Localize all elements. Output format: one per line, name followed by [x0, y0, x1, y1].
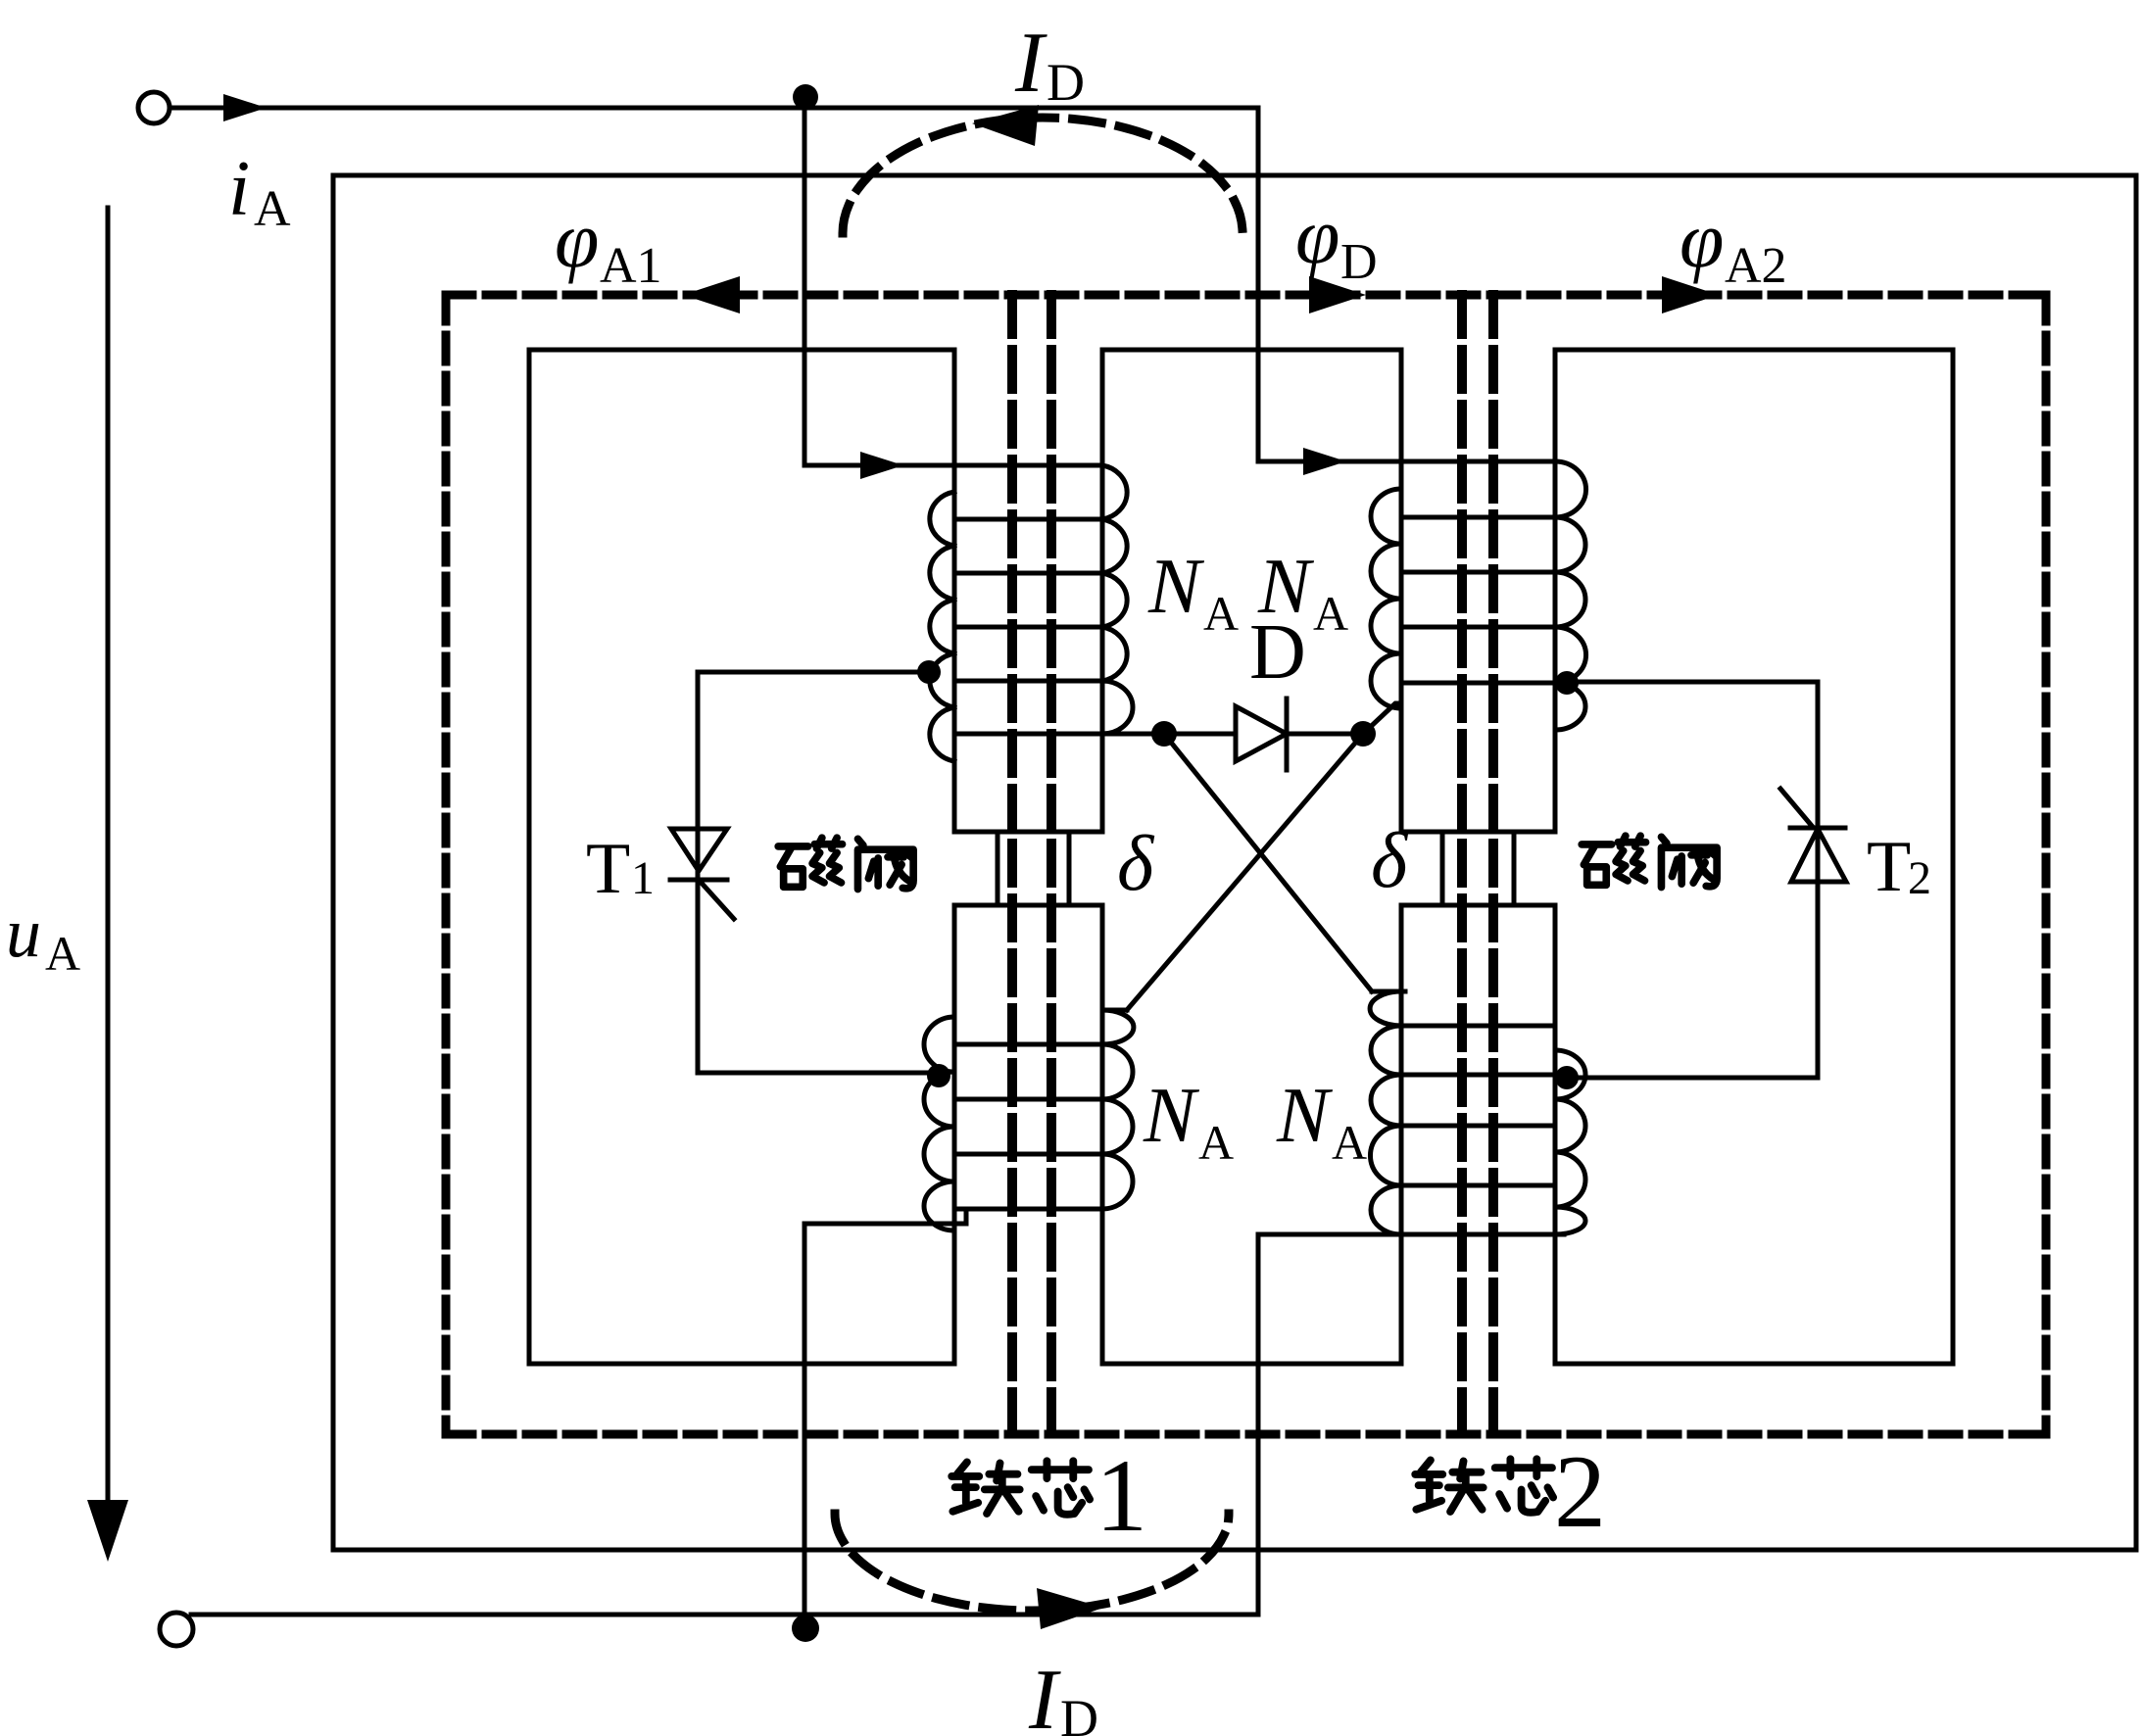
- svg-text:N: N: [1276, 1073, 1334, 1159]
- diode D body (triangle): [1236, 706, 1287, 761]
- middle yoke bottom (between cores): [1102, 1362, 1401, 1367]
- core 1 valve cap lower: [954, 903, 1102, 908]
- tap dot T1 bottom: [927, 1064, 950, 1087]
- core 1 outline: top yoke: [529, 348, 954, 353]
- label 磁 (of left 磁阀): [778, 838, 842, 887]
- svg-text:u: u: [6, 893, 41, 972]
- svg-text:I: I: [1014, 16, 1047, 111]
- winding N_A core2 upper: turn lines: [1401, 517, 1555, 683]
- svg-text:A: A: [1332, 1115, 1367, 1170]
- wire: left return drop to bottom bus: [803, 1224, 807, 1616]
- winding N_A core1 lower: entry tick from crossing wire: [1105, 1008, 1127, 1013]
- arrow phi_A1 (leftward on dashed loop): [683, 276, 740, 313]
- node A dot (diode anode): [1151, 721, 1177, 747]
- tap dot T1 top: [917, 660, 941, 684]
- outer wire loop box (i_A circuit frame): [333, 175, 2136, 1550]
- winding N_A core1 lower: left bumps: [924, 1017, 954, 1230]
- wire: T2 vertical lead upper: [1816, 682, 1821, 828]
- wire: top feed from terminal to right corner: [170, 106, 1258, 111]
- winding N_A core2 upper: left bumps: [1371, 489, 1401, 708]
- svg-text:N: N: [1143, 1073, 1200, 1159]
- wire: i_A2 entry into core 2 upper winding: [1258, 459, 1555, 464]
- svg-text:D: D: [1047, 53, 1085, 112]
- wire: core2 lower winding exit to return drop: [1258, 1232, 1564, 1237]
- bottom terminal (output): [160, 1613, 193, 1646]
- thyristor T1 gate lead: [699, 880, 734, 919]
- core 1 valve cap upper: [954, 830, 1102, 835]
- core 2 magnetic valve neck right: [1512, 832, 1517, 905]
- core 2 limb right edge lower: [1553, 905, 1558, 1364]
- tap dot T2 bottom: [1555, 1066, 1579, 1089]
- svg-text:I: I: [1028, 1653, 1061, 1736]
- winding N_A core2 lower: entry tick from crossing wire: [1372, 989, 1405, 994]
- I_D circulating current arc (top): [843, 118, 1242, 233]
- label 铁 (of 铁芯1): [951, 1462, 1019, 1514]
- core 2 valve cap upper: [1401, 830, 1555, 835]
- svg-text:δ: δ: [1371, 818, 1409, 904]
- svg-text:A: A: [1313, 586, 1348, 641]
- arrow phi_D (rightward on dashed loop): [1309, 276, 1366, 313]
- winding N_A core2 lower: right bumps: [1555, 1050, 1585, 1234]
- thyristor T1 cathode bar: [670, 878, 727, 883]
- junction dot top bus: [793, 84, 818, 110]
- svg-text:A1: A1: [600, 238, 662, 294]
- winding N_A core1 upper: bottom turn to diode node: [954, 732, 1236, 737]
- core 2 outline: right leg: [1951, 350, 1956, 1364]
- flux dashed rectangle: bottom edge: [446, 1430, 2046, 1439]
- winding N_A core2 lower: turn lines: [1401, 1026, 1555, 1185]
- flux line phi_D down through core 1 limb: [1047, 295, 1056, 1434]
- wire: T2 branch top from core2 winding tap: [1565, 680, 1818, 685]
- wire: i_A1 entry into core 1 upper winding: [804, 463, 1102, 468]
- winding N_A core1 upper: turn lines: [954, 519, 1102, 681]
- core 1 limb left edge upper: [952, 350, 957, 832]
- label 阀 (of right 磁阀): [1661, 837, 1717, 887]
- core 1 limb right edge upper: [1100, 350, 1105, 832]
- wire: diode cathode to node B: [1287, 732, 1363, 737]
- winding N_A core1 upper: left bumps: [930, 492, 954, 761]
- top terminal (input): [138, 92, 170, 123]
- diode D cathode bar: [1285, 699, 1290, 770]
- svg-text:A: A: [45, 926, 80, 981]
- thyristor T2 gate lead: [1780, 789, 1812, 826]
- winding N_A core1 lower: turn lines: [954, 1044, 1102, 1209]
- label 芯 (of 铁芯1): [1032, 1461, 1090, 1515]
- winding N_A core2 upper: right bumps: [1555, 461, 1586, 730]
- wire: crossing A (node A to core2 lower winding): [1164, 734, 1372, 991]
- core 2 limb left edge upper: [1399, 350, 1404, 832]
- flux dashed rectangle: left edge (phi_A1): [442, 295, 451, 1434]
- svg-text:A: A: [1198, 1115, 1234, 1170]
- core 1 magnetic valve neck right: [1067, 832, 1072, 905]
- arrow i_A on top feed: [223, 94, 267, 121]
- core 2 outline: top yoke: [1555, 348, 1953, 353]
- wire: bottom bus: [191, 1613, 1258, 1617]
- svg-text:A2: A2: [1725, 238, 1787, 294]
- wire: crossing B (node B to core1 lower winding): [1127, 734, 1363, 1010]
- winding N_A core2 lower: left bumps: [1370, 991, 1401, 1234]
- svg-text:φ: φ: [1295, 191, 1339, 280]
- label 阀 (of left 磁阀): [857, 839, 913, 889]
- winding N_A core1 upper: right bumps: [1102, 465, 1133, 734]
- arrow i_A2: [1303, 448, 1346, 475]
- core 2 valve cap lower: [1401, 903, 1555, 908]
- label 铁 (of 铁芯2): [1415, 1460, 1483, 1512]
- svg-text:i: i: [228, 146, 250, 232]
- wire: T2 vertical lead lower: [1816, 828, 1821, 1078]
- svg-text:φ: φ: [1680, 195, 1724, 284]
- flux dashed rectangle: right edge (phi_A2): [2042, 295, 2051, 1434]
- svg-text:D: D: [1340, 234, 1378, 290]
- svg-text:1: 1: [1096, 1438, 1147, 1553]
- u_A voltage reference line: [106, 208, 111, 1500]
- core 2 limb right edge upper: [1553, 350, 1558, 832]
- tap dot T2 top: [1555, 671, 1579, 695]
- label 磁 (of right 磁阀): [1582, 836, 1645, 885]
- svg-text:D: D: [1060, 1689, 1098, 1736]
- DOTS-ARROWS: [87, 84, 1719, 1642]
- svg-text:1: 1: [631, 852, 655, 904]
- flux loop phi_A1/phi_A2 outer dashed rectangle: top edge: [446, 291, 2046, 300]
- arrow i_A1: [860, 452, 903, 479]
- svg-text:A: A: [254, 181, 291, 237]
- core 1 limb left edge lower: [952, 905, 957, 1364]
- wire: T1 anode branch (top): [698, 670, 929, 675]
- flux line phi_D up through core 2 limb: [1457, 295, 1467, 1434]
- thyristor T1 body (triangle down): [671, 829, 727, 871]
- wire: core1 lower winding exit stub: [804, 1209, 966, 1224]
- core 2 magnetic valve neck left: [1440, 832, 1445, 905]
- flux line phi_A2 through core 2 limb: [1488, 295, 1498, 1434]
- svg-text:δ: δ: [1117, 821, 1155, 907]
- core 1 outline: left leg: [527, 350, 532, 1364]
- svg-text:T: T: [586, 829, 630, 909]
- wire: T2 branch bottom to core2 lower winding tap: [1565, 1076, 1818, 1081]
- wire: node B up to core2 upper winding: [1363, 703, 1401, 734]
- wire: T1 vertical anode lead: [696, 672, 701, 880]
- svg-text:T: T: [1867, 827, 1911, 907]
- svg-text:N: N: [1147, 544, 1205, 630]
- thyristor T2 cathode bar: [1790, 826, 1845, 831]
- junction dot bottom bus: [792, 1615, 819, 1642]
- arrow u_A (downward): [87, 1500, 128, 1562]
- winding N_A core1 lower: right bumps: [1102, 1010, 1134, 1209]
- wire: right return drop to bottom bus: [1256, 1234, 1261, 1615]
- core 1 outline: bottom yoke: [529, 1362, 954, 1367]
- I_D circulating current arc (bottom): [835, 1514, 1229, 1611]
- core 1 magnetic valve neck left: [996, 832, 1000, 905]
- wire: left drop from junction to winding N_A core1 entry: [803, 100, 807, 465]
- core 2 outline: bottom yoke: [1555, 1362, 1953, 1367]
- wire: right drop from top corner: [1256, 108, 1261, 461]
- core 2 limb left edge lower: [1399, 905, 1404, 1364]
- middle yoke top (between cores): [1102, 348, 1401, 353]
- label 芯 (of 铁芯2): [1495, 1459, 1553, 1513]
- svg-text:φ: φ: [555, 195, 599, 284]
- svg-text:2: 2: [1908, 852, 1931, 904]
- thyristor T2 body (triangle up): [1791, 829, 1846, 882]
- wire: T1 cathode branch (bottom): [698, 1071, 939, 1076]
- core 1 limb right edge lower: [1100, 905, 1105, 1364]
- svg-text:A: A: [1203, 586, 1239, 641]
- wire: T1 cathode lead down: [696, 880, 701, 1073]
- flux line phi_A1 return through core 1 limb: [1007, 295, 1017, 1434]
- arrow I_D top arc (leftward): [972, 105, 1039, 146]
- arrow I_D bottom arc (rightward): [1037, 1588, 1103, 1629]
- svg-text:D: D: [1249, 609, 1306, 696]
- arrow phi_A2 (rightward on dashed loop): [1662, 276, 1719, 313]
- svg-text:2: 2: [1554, 1434, 1606, 1549]
- node B dot (diode cathode): [1350, 721, 1376, 747]
